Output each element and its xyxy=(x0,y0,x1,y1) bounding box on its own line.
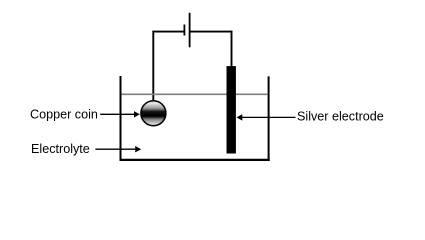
arrowhead pointing at copper coin xyxy=(134,111,140,117)
svg-text:Silver electrode: Silver electrode xyxy=(297,110,384,124)
beaker left wall xyxy=(120,76,122,161)
svg-text:Copper coin: Copper coin xyxy=(30,107,98,121)
silver electrode (solid black bar) xyxy=(227,66,236,153)
wire from battery negative terminal to copper coin (top horizontal) xyxy=(152,31,184,33)
wire (right vertical, down to silver electrode) xyxy=(231,31,233,67)
wire (left vertical, down to copper coin) xyxy=(152,31,154,101)
beaker right wall xyxy=(268,76,270,160)
leader line from Copper coin label xyxy=(100,113,134,115)
battery cell: short (negative) plate xyxy=(183,25,185,36)
wire from battery positive terminal to silver electrode (top horizontal) xyxy=(190,31,233,33)
svg-text:Electrolyte: Electrolyte xyxy=(31,142,90,156)
electrolyte liquid level line xyxy=(122,93,268,95)
beaker bottom xyxy=(120,159,270,161)
arrowhead pointing at silver electrode xyxy=(237,114,243,120)
arrowhead pointing into electrolyte xyxy=(135,146,141,152)
leader line from Electrolyte label xyxy=(95,148,135,150)
copper coin (gradient-shaded disc) xyxy=(141,101,166,126)
battery cell: long (positive) plate xyxy=(189,13,191,48)
leader line from Silver electrode label xyxy=(242,116,296,118)
